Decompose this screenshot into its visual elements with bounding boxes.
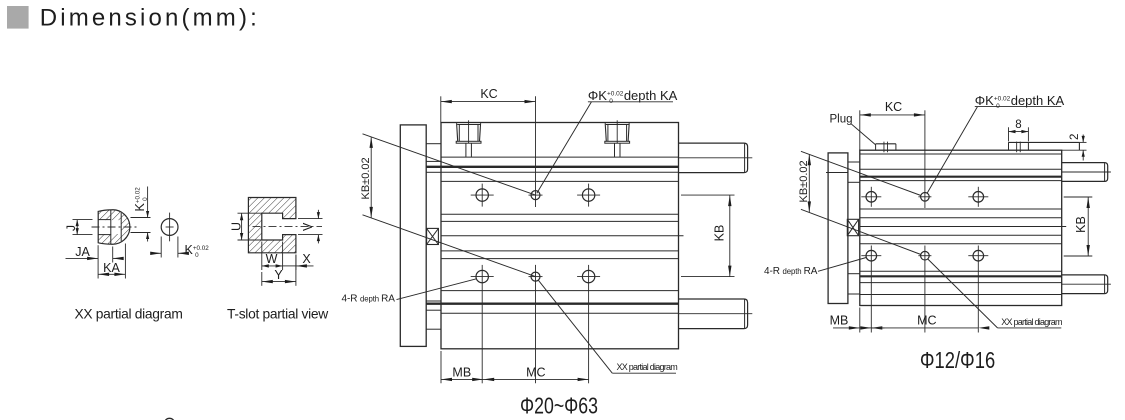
svg-text:2: 2 xyxy=(1069,134,1081,140)
svg-text:MC: MC xyxy=(917,313,936,327)
svg-text:Φ20~Φ63: Φ20~Φ63 xyxy=(520,393,598,419)
svg-text:KC: KC xyxy=(885,100,902,114)
svg-text:KA: KA xyxy=(103,261,120,275)
svg-text:Plug: Plug xyxy=(830,113,853,125)
svg-text:Φ12/Φ16: Φ12/Φ16 xyxy=(920,348,995,373)
svg-text:KC: KC xyxy=(480,87,497,101)
svg-text:Y: Y xyxy=(274,268,283,282)
svg-text:KB±0.02: KB±0.02 xyxy=(360,157,372,199)
svg-text:XX partial diagram: XX partial diagram xyxy=(1001,317,1062,327)
svg-text:J: J xyxy=(64,225,78,231)
svg-text:V: V xyxy=(301,222,315,231)
svg-text:KB: KB xyxy=(713,225,727,242)
svg-text:Dimension(mm):: Dimension(mm): xyxy=(40,5,260,32)
svg-text:MC: MC xyxy=(526,366,545,380)
svg-text:ΦK+0.020depth KA: ΦK+0.020depth KA xyxy=(975,93,1065,110)
svg-text:K+0.020: K+0.020 xyxy=(133,187,149,212)
svg-text:KB: KB xyxy=(1074,216,1088,233)
svg-text:KB±0.02: KB±0.02 xyxy=(798,160,810,202)
svg-text:MB: MB xyxy=(830,313,849,327)
svg-text:W: W xyxy=(266,252,278,266)
svg-text:U: U xyxy=(230,222,244,231)
svg-text:XX partial diagram: XX partial diagram xyxy=(617,362,678,372)
svg-text:JA: JA xyxy=(75,245,90,259)
svg-text:K+0.020: K+0.020 xyxy=(185,243,210,259)
svg-text:X: X xyxy=(302,252,311,266)
svg-text:4-R depth RA: 4-R depth RA xyxy=(764,266,818,277)
svg-text:8: 8 xyxy=(1015,119,1021,131)
svg-text:MB: MB xyxy=(452,366,471,380)
svg-text:XX partial diagram: XX partial diagram xyxy=(74,306,182,321)
svg-text:T-slot partial view: T-slot partial view xyxy=(227,307,328,322)
svg-text:4-R depth RA: 4-R depth RA xyxy=(342,294,396,305)
